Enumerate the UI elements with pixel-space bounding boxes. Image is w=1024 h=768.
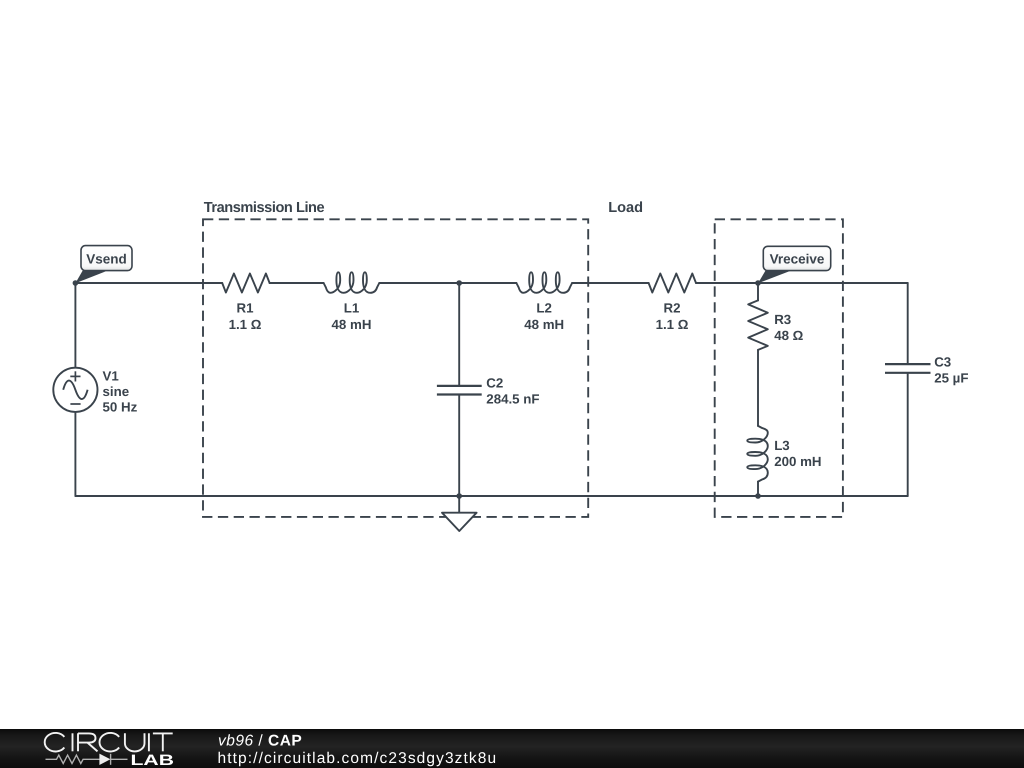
svg-text:vb96 / CAP: vb96 / CAP xyxy=(218,732,302,749)
svg-text:http://circuitlab.com/c23sdgy3: http://circuitlab.com/c23sdgy3ztk8u xyxy=(218,750,498,767)
svg-text:25 µF: 25 µF xyxy=(934,370,968,385)
svg-text:200 mH: 200 mH xyxy=(774,454,821,469)
svg-text:Vreceive: Vreceive xyxy=(770,251,825,266)
svg-text:284.5 nF: 284.5 nF xyxy=(486,391,539,406)
svg-text:Vsend: Vsend xyxy=(86,252,127,267)
svg-text:1.1 Ω: 1.1 Ω xyxy=(656,317,689,332)
svg-text:Load: Load xyxy=(608,200,643,216)
svg-text:50 Hz: 50 Hz xyxy=(103,400,138,415)
svg-text:V1: V1 xyxy=(103,369,120,384)
svg-text:48 Ω: 48 Ω xyxy=(774,328,803,343)
svg-text:sine: sine xyxy=(103,384,130,399)
svg-text:48 mH: 48 mH xyxy=(332,317,372,332)
svg-text:LAB: LAB xyxy=(131,752,175,768)
svg-text:L1: L1 xyxy=(344,301,360,316)
svg-text:C3: C3 xyxy=(934,354,951,369)
svg-text:1.1 Ω: 1.1 Ω xyxy=(229,317,262,332)
svg-text:48 mH: 48 mH xyxy=(524,317,564,332)
svg-text:L2: L2 xyxy=(536,301,552,316)
svg-text:C2: C2 xyxy=(486,376,503,391)
svg-text:R1: R1 xyxy=(237,301,255,316)
svg-text:L3: L3 xyxy=(774,438,790,453)
svg-text:Transmission Line: Transmission Line xyxy=(204,200,325,216)
svg-text:R2: R2 xyxy=(664,301,681,316)
svg-text:R3: R3 xyxy=(774,312,791,327)
